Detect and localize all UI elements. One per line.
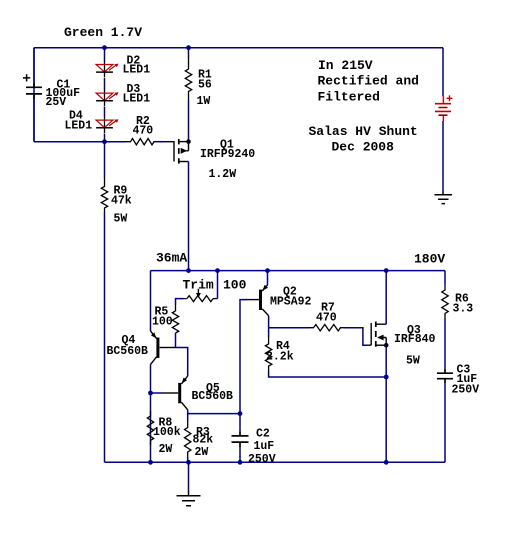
label R6 [453,292,474,315]
resistor R1 [185,48,191,140]
svg-text:LED1: LED1 [123,64,151,77]
wire battery bottom [442,121,444,191]
label Q4 [107,334,149,358]
capacitor C2 [232,414,249,463]
wire R9 column [104,142,106,463]
wire R3 bottom [187,457,189,462]
wire Q5 base [151,392,164,394]
svg-text:36mA: 36mA [156,250,187,265]
label 36mA [156,250,187,265]
transistor Q4 BC560B [151,331,176,364]
label Trim [183,277,247,292]
svg-text:Dec 2008: Dec 2008 [332,139,395,154]
svg-text:25V: 25V [46,96,67,109]
svg-text:BC560B: BC560B [192,390,234,403]
node C2 top junction [238,411,243,416]
node mid rail Q1 [186,268,191,273]
node mid rail Q3 drain [384,268,389,273]
wire Q2c to R7 [269,327,309,329]
label Q1 [200,139,255,181]
transistor Q2 MPSA92 [246,285,269,316]
resistor R2 [105,139,165,145]
svg-text:2W: 2W [195,446,209,459]
label Green 1.7V [64,25,142,40]
wire Q1 drain down [188,162,190,271]
node mid rail Q2 [265,268,270,273]
label C3 [452,363,480,396]
transistor Q3 IRF840 [367,322,389,348]
wire mid rail [151,270,446,272]
wire Q2 emitter [267,271,269,285]
wire Q4 base to Q5 emitter [176,348,188,377]
svg-text:2.2k: 2.2k [266,350,294,363]
svg-text:Filtered: Filtered [318,89,380,104]
label D3 [123,83,151,105]
potentiometer Trim [176,289,218,311]
wire left loop bottom [34,141,105,143]
resistor R6 [442,284,448,318]
label R3 [193,426,214,459]
resistor R5 [172,311,178,333]
resistor R8 [147,411,153,445]
svg-text:1W: 1W [197,95,211,108]
svg-text:1.2W: 1.2W [209,168,237,181]
svg-text:250V: 250V [248,453,276,466]
node LED/R2/R9 junction [102,139,107,144]
label R1 [197,68,212,108]
svg-text:47k: 47k [111,195,132,208]
wire R6 top [444,271,446,284]
node top rail R1 junction [186,45,191,50]
wire battery top [442,48,444,97]
wire R6 to C3 [444,318,446,369]
svg-text:100: 100 [152,316,173,329]
wire LED column [104,48,106,142]
node bottom R8 [148,460,153,465]
node top rail LED junction [102,45,107,50]
label R7 [316,301,337,324]
label R5 [152,305,173,328]
wire Q3 drain up [385,271,387,325]
svg-text:82k: 82k [193,434,214,447]
node Q3 source rail [384,375,389,380]
svg-text:100: 100 [223,277,247,292]
ground main [177,462,201,505]
wire trim to rail [217,271,219,299]
svg-text:Trim: Trim [183,277,214,292]
transistor Q1 IRFP9240 [165,139,191,164]
resistor R9 [101,178,107,212]
svg-text:Green 1.7V: Green 1.7V [64,25,142,40]
resistor R4 [265,337,271,371]
wire C3 bottom [444,383,446,462]
svg-text:5W: 5W [406,354,420,367]
label Q5 [192,382,234,403]
wire mid rail left drop [150,271,152,331]
ground battery [435,191,453,204]
svg-text:250V: 250V [452,383,480,396]
svg-text:MPSA92: MPSA92 [270,296,312,309]
capacitor C3 [437,369,453,383]
label Q3 [394,324,436,368]
capacitor C1 [23,48,42,142]
wire Q4 collector down [150,364,152,462]
svg-text:2W: 2W [159,443,173,456]
label R4 [266,340,294,364]
wire R7 to Q3 gate [344,328,367,346]
svg-text:BC560B: BC560B [107,345,149,358]
svg-text:Rectified and: Rectified and [318,74,419,89]
svg-text:In 215V: In 215V [318,58,373,73]
LED D3 [96,90,118,106]
svg-text:Salas HV Shunt: Salas HV Shunt [309,124,418,139]
svg-text:LED1: LED1 [123,92,151,105]
node mid rail trim [215,268,220,273]
svg-text:LED1: LED1 [65,119,93,132]
label D2 [123,54,151,76]
svg-text:180V: 180V [414,252,445,267]
svg-text:100k: 100k [153,426,181,439]
label R2 [133,115,154,138]
label C2 [248,428,276,466]
svg-text:3.3: 3.3 [453,303,474,316]
resistor R3 [185,421,191,457]
svg-text:C2: C2 [256,428,270,441]
label Q2 [270,286,312,309]
wire top rail [34,47,443,49]
label input note [318,58,419,104]
transistor Q5 BC560B [163,376,188,410]
wire Q3 source down [385,345,387,462]
wire R4 top [268,328,270,337]
wire Q2 base down [240,300,246,414]
wire bottom rail [105,461,446,463]
svg-text:470: 470 [316,312,337,325]
wire Q2 collector down [268,316,270,328]
wire R4 bottom rail [269,371,387,377]
wire Q5 collector [188,410,240,414]
battery B1 [435,95,452,121]
label 180V [414,252,445,267]
label R8 [153,417,181,456]
label D4 [65,109,93,132]
node bottom Q3 [384,460,389,465]
label R9 [111,185,132,226]
node bottom C2 [238,460,243,465]
wire R3 top [187,414,189,421]
wire left column [33,48,35,142]
wire R5 bottom [175,333,177,348]
svg-text:5W: 5W [114,212,128,225]
label title [309,124,418,155]
svg-text:IRFP9240: IRFP9240 [200,148,255,161]
svg-text:56: 56 [198,79,212,92]
svg-text:1uF: 1uF [254,440,275,453]
node Q4 collector / Q5 base [148,391,153,396]
LED D4 [96,117,118,133]
node bottom R3/ground [186,460,191,465]
resistor R7 [309,325,344,331]
label C1 [46,79,81,109]
LED D2 [96,61,118,77]
svg-text:IRF840: IRF840 [394,333,436,346]
svg-text:470: 470 [133,124,154,137]
